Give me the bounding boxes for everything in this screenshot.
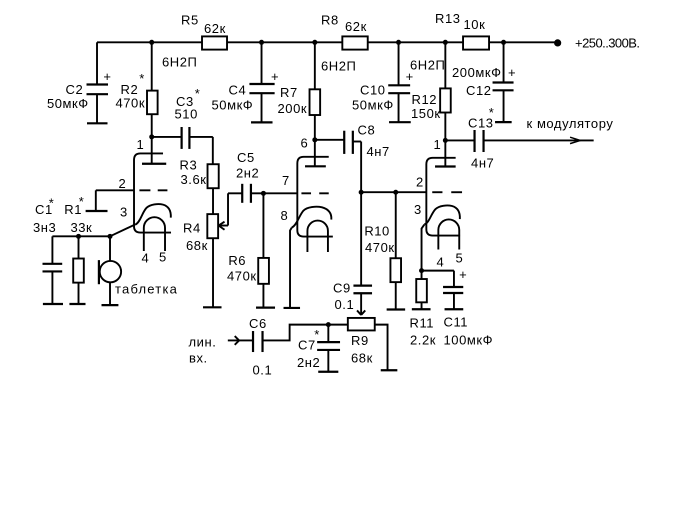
svg-text:C4: C4 <box>229 83 247 98</box>
svg-text:C5: C5 <box>237 150 255 165</box>
ground below microphone <box>102 304 119 306</box>
tube V1 envelope 6N2P <box>134 55 197 233</box>
resistor R11 <box>410 271 436 348</box>
svg-text:*: * <box>49 196 55 211</box>
svg-text:6Н2П: 6Н2П <box>410 58 445 73</box>
svg-text:150к: 150к <box>411 106 441 121</box>
svg-text:R7: R7 <box>280 85 298 100</box>
microphone (таблетка) <box>99 234 178 305</box>
tube V2 cathode pin8 <box>281 207 332 228</box>
svg-text:1: 1 <box>137 137 145 152</box>
svg-text:C10: C10 <box>360 83 385 98</box>
capacitor C2 <box>47 42 112 123</box>
svg-text:50мкФ: 50мкФ <box>352 98 394 113</box>
svg-text:*: * <box>195 86 201 101</box>
resistor R1 <box>64 194 92 304</box>
svg-text:4н7: 4н7 <box>367 144 390 159</box>
capacitor C11 <box>422 267 494 348</box>
resistor R13 <box>435 11 489 50</box>
ground below C12 <box>495 121 512 123</box>
svg-text:62к: 62к <box>345 19 367 34</box>
svg-text:C12: C12 <box>466 83 492 98</box>
svg-text:2н2: 2н2 <box>236 166 259 181</box>
svg-text:68к: 68к <box>186 238 208 253</box>
wire input node row <box>52 235 109 237</box>
svg-text:470к: 470к <box>116 96 146 111</box>
svg-text:таблетка: таблетка <box>115 282 178 297</box>
wire top supply rail <box>97 41 557 43</box>
ground below C10 <box>389 121 411 123</box>
svg-text:6: 6 <box>301 136 309 151</box>
svg-text:68к: 68к <box>351 351 373 366</box>
svg-text:62к: 62к <box>204 21 226 36</box>
capacitor C8 <box>315 123 390 159</box>
tube V3 envelope 6N2P <box>410 58 460 236</box>
ground grid2 <box>86 210 108 212</box>
svg-text:6Н2П: 6Н2П <box>321 59 356 74</box>
svg-text:+250..300В.: +250..300В. <box>575 36 639 51</box>
tube V1 cathode pin3 <box>120 204 171 224</box>
resistor R8 <box>321 13 368 50</box>
tube V2 heater <box>307 221 328 252</box>
tube V1 anode pin1 <box>137 137 167 164</box>
svg-text:10к: 10к <box>464 17 486 32</box>
ground below C7 <box>318 371 338 373</box>
svg-text:*: * <box>489 105 495 120</box>
ground below R4 <box>203 306 222 308</box>
svg-text:1: 1 <box>434 137 442 152</box>
node R2 / C3 / tube1 anode <box>149 40 154 140</box>
svg-text:+: + <box>508 65 516 80</box>
tube V2 anode pin6 <box>301 136 326 167</box>
svg-text:470к: 470к <box>227 269 257 284</box>
resistor R10 <box>364 192 401 309</box>
capacitor C10 <box>352 40 414 122</box>
wire mic node to tube1 cathode (diagonal) <box>110 224 136 236</box>
ground below C2 <box>87 122 108 124</box>
svg-text:вх.: вх. <box>189 351 208 366</box>
svg-text:R4: R4 <box>183 221 201 236</box>
ground below R1 <box>69 303 85 305</box>
capacitor C9 <box>333 192 372 312</box>
svg-text:50мкФ: 50мкФ <box>47 96 89 111</box>
svg-text:470к: 470к <box>365 240 395 255</box>
svg-text:8: 8 <box>281 208 289 223</box>
svg-text:200к: 200к <box>278 101 308 116</box>
tube V1 heater <box>142 217 167 265</box>
svg-text:C7: C7 <box>298 338 316 353</box>
svg-text:2: 2 <box>119 176 127 191</box>
svg-text:*: * <box>314 327 320 342</box>
resistor R7 <box>278 40 321 140</box>
svg-text:R8: R8 <box>321 13 339 28</box>
svg-text:4н7: 4н7 <box>471 156 494 171</box>
svg-text:3: 3 <box>120 205 128 220</box>
ground below R10 <box>387 308 406 310</box>
svg-text:3: 3 <box>414 202 422 217</box>
wire tube2 cathode down <box>290 228 292 308</box>
capacitor C6 line input <box>189 316 273 378</box>
tube V3 heater <box>437 219 464 269</box>
svg-text:C9: C9 <box>333 281 351 296</box>
svg-text:R11: R11 <box>410 316 435 331</box>
ground below R11 <box>412 308 431 310</box>
svg-text:3.6к: 3.6к <box>181 172 207 187</box>
svg-text:R13: R13 <box>435 11 460 26</box>
svg-text:C2: C2 <box>66 82 84 97</box>
svg-text:C11: C11 <box>444 315 469 330</box>
node R10 / tube3 grid <box>393 190 426 195</box>
capacitor C5 <box>236 150 263 203</box>
resistor R6 <box>227 193 269 307</box>
svg-text:*: * <box>79 194 85 209</box>
ground below C11 <box>445 308 464 310</box>
node R12 / C13 / tube3 anode pin1 <box>443 138 448 143</box>
tube V3 anode pin1 <box>434 137 456 167</box>
wire tube3 cathode down <box>422 225 425 271</box>
tube V2 grid pin7 dashes <box>282 173 329 193</box>
node C5 / R6 / grid pin7 <box>261 191 297 196</box>
capacitor C1 <box>33 196 62 305</box>
wire C9 arrow to R9 wiper <box>357 293 365 315</box>
ground tube2 cathode <box>284 307 301 309</box>
capacitor C13 <box>445 105 494 171</box>
svg-text:33к: 33к <box>71 220 93 235</box>
svg-text:100мкФ: 100мкФ <box>444 333 494 348</box>
node supply terminal +250..300V <box>554 36 639 51</box>
svg-text:лин.: лин. <box>189 335 217 350</box>
svg-text:*: * <box>139 71 145 86</box>
wire C8 down to grid node <box>360 142 362 193</box>
resistor R2 <box>116 42 158 137</box>
resistor R4 (trimmer) <box>183 188 218 307</box>
capacitor C3 <box>152 86 213 149</box>
svg-text:C8: C8 <box>358 123 376 138</box>
resistor R9 (potentiometer) <box>328 318 387 370</box>
capacitor C12 <box>452 40 516 122</box>
svg-text:4: 4 <box>142 251 150 266</box>
svg-text:к модулятору: к модулятору <box>527 116 614 131</box>
ground below C4 <box>251 121 273 123</box>
svg-text:200мкФ: 200мкФ <box>452 65 502 80</box>
svg-text:2: 2 <box>416 175 424 190</box>
svg-text:510: 510 <box>175 107 198 122</box>
tube V3 cathode pin3 <box>414 202 460 225</box>
svg-text:6Н2П: 6Н2П <box>162 55 197 70</box>
ground right of R9 <box>381 369 398 371</box>
node R7 / C8 / tube2 anode pin6 <box>312 137 317 142</box>
capacitor C7 <box>297 325 340 372</box>
svg-text:C6: C6 <box>249 316 267 331</box>
svg-text:4: 4 <box>437 255 445 270</box>
tube V1 grid pin2 <box>96 176 168 191</box>
svg-text:+: + <box>271 69 279 84</box>
svg-text:7: 7 <box>282 173 290 188</box>
svg-text:5: 5 <box>159 250 167 265</box>
svg-text:3н3: 3н3 <box>33 220 56 235</box>
svg-text:R10: R10 <box>364 224 390 239</box>
node C7 / R9 <box>326 322 331 327</box>
resistor R12 <box>411 40 451 141</box>
svg-text:0.1: 0.1 <box>253 363 273 378</box>
svg-text:R12: R12 <box>412 92 437 107</box>
svg-text:+: + <box>103 69 111 84</box>
wire R4 wiper arrow to C5 <box>219 193 243 229</box>
svg-text:R3: R3 <box>180 158 198 173</box>
wire C6 to R9/C7 node <box>263 325 329 341</box>
ground below R6 <box>256 307 275 309</box>
svg-text:R9: R9 <box>351 333 369 348</box>
svg-text:0.1: 0.1 <box>335 297 355 312</box>
tube V3 grid pin2 dashes <box>416 175 462 193</box>
node C8 / C9 <box>359 190 396 195</box>
svg-text:2н2: 2н2 <box>297 355 320 370</box>
capacitor C4 <box>212 40 280 123</box>
svg-text:5: 5 <box>456 251 464 266</box>
svg-text:R5: R5 <box>181 13 199 28</box>
wire output to modulator with arrow <box>484 116 614 144</box>
resistor R3 <box>180 137 219 188</box>
wire grid2 to ground <box>95 190 97 211</box>
svg-text:50мкФ: 50мкФ <box>212 98 254 113</box>
svg-text:2.2к: 2.2к <box>410 333 436 348</box>
svg-text:R6: R6 <box>228 253 246 268</box>
tube V2 envelope 6N2P <box>297 59 356 237</box>
svg-text:+: + <box>459 267 467 282</box>
ground below C1 <box>43 303 63 305</box>
resistor R5 <box>181 13 227 50</box>
node cathode3 / R11 / C11 <box>419 268 424 273</box>
